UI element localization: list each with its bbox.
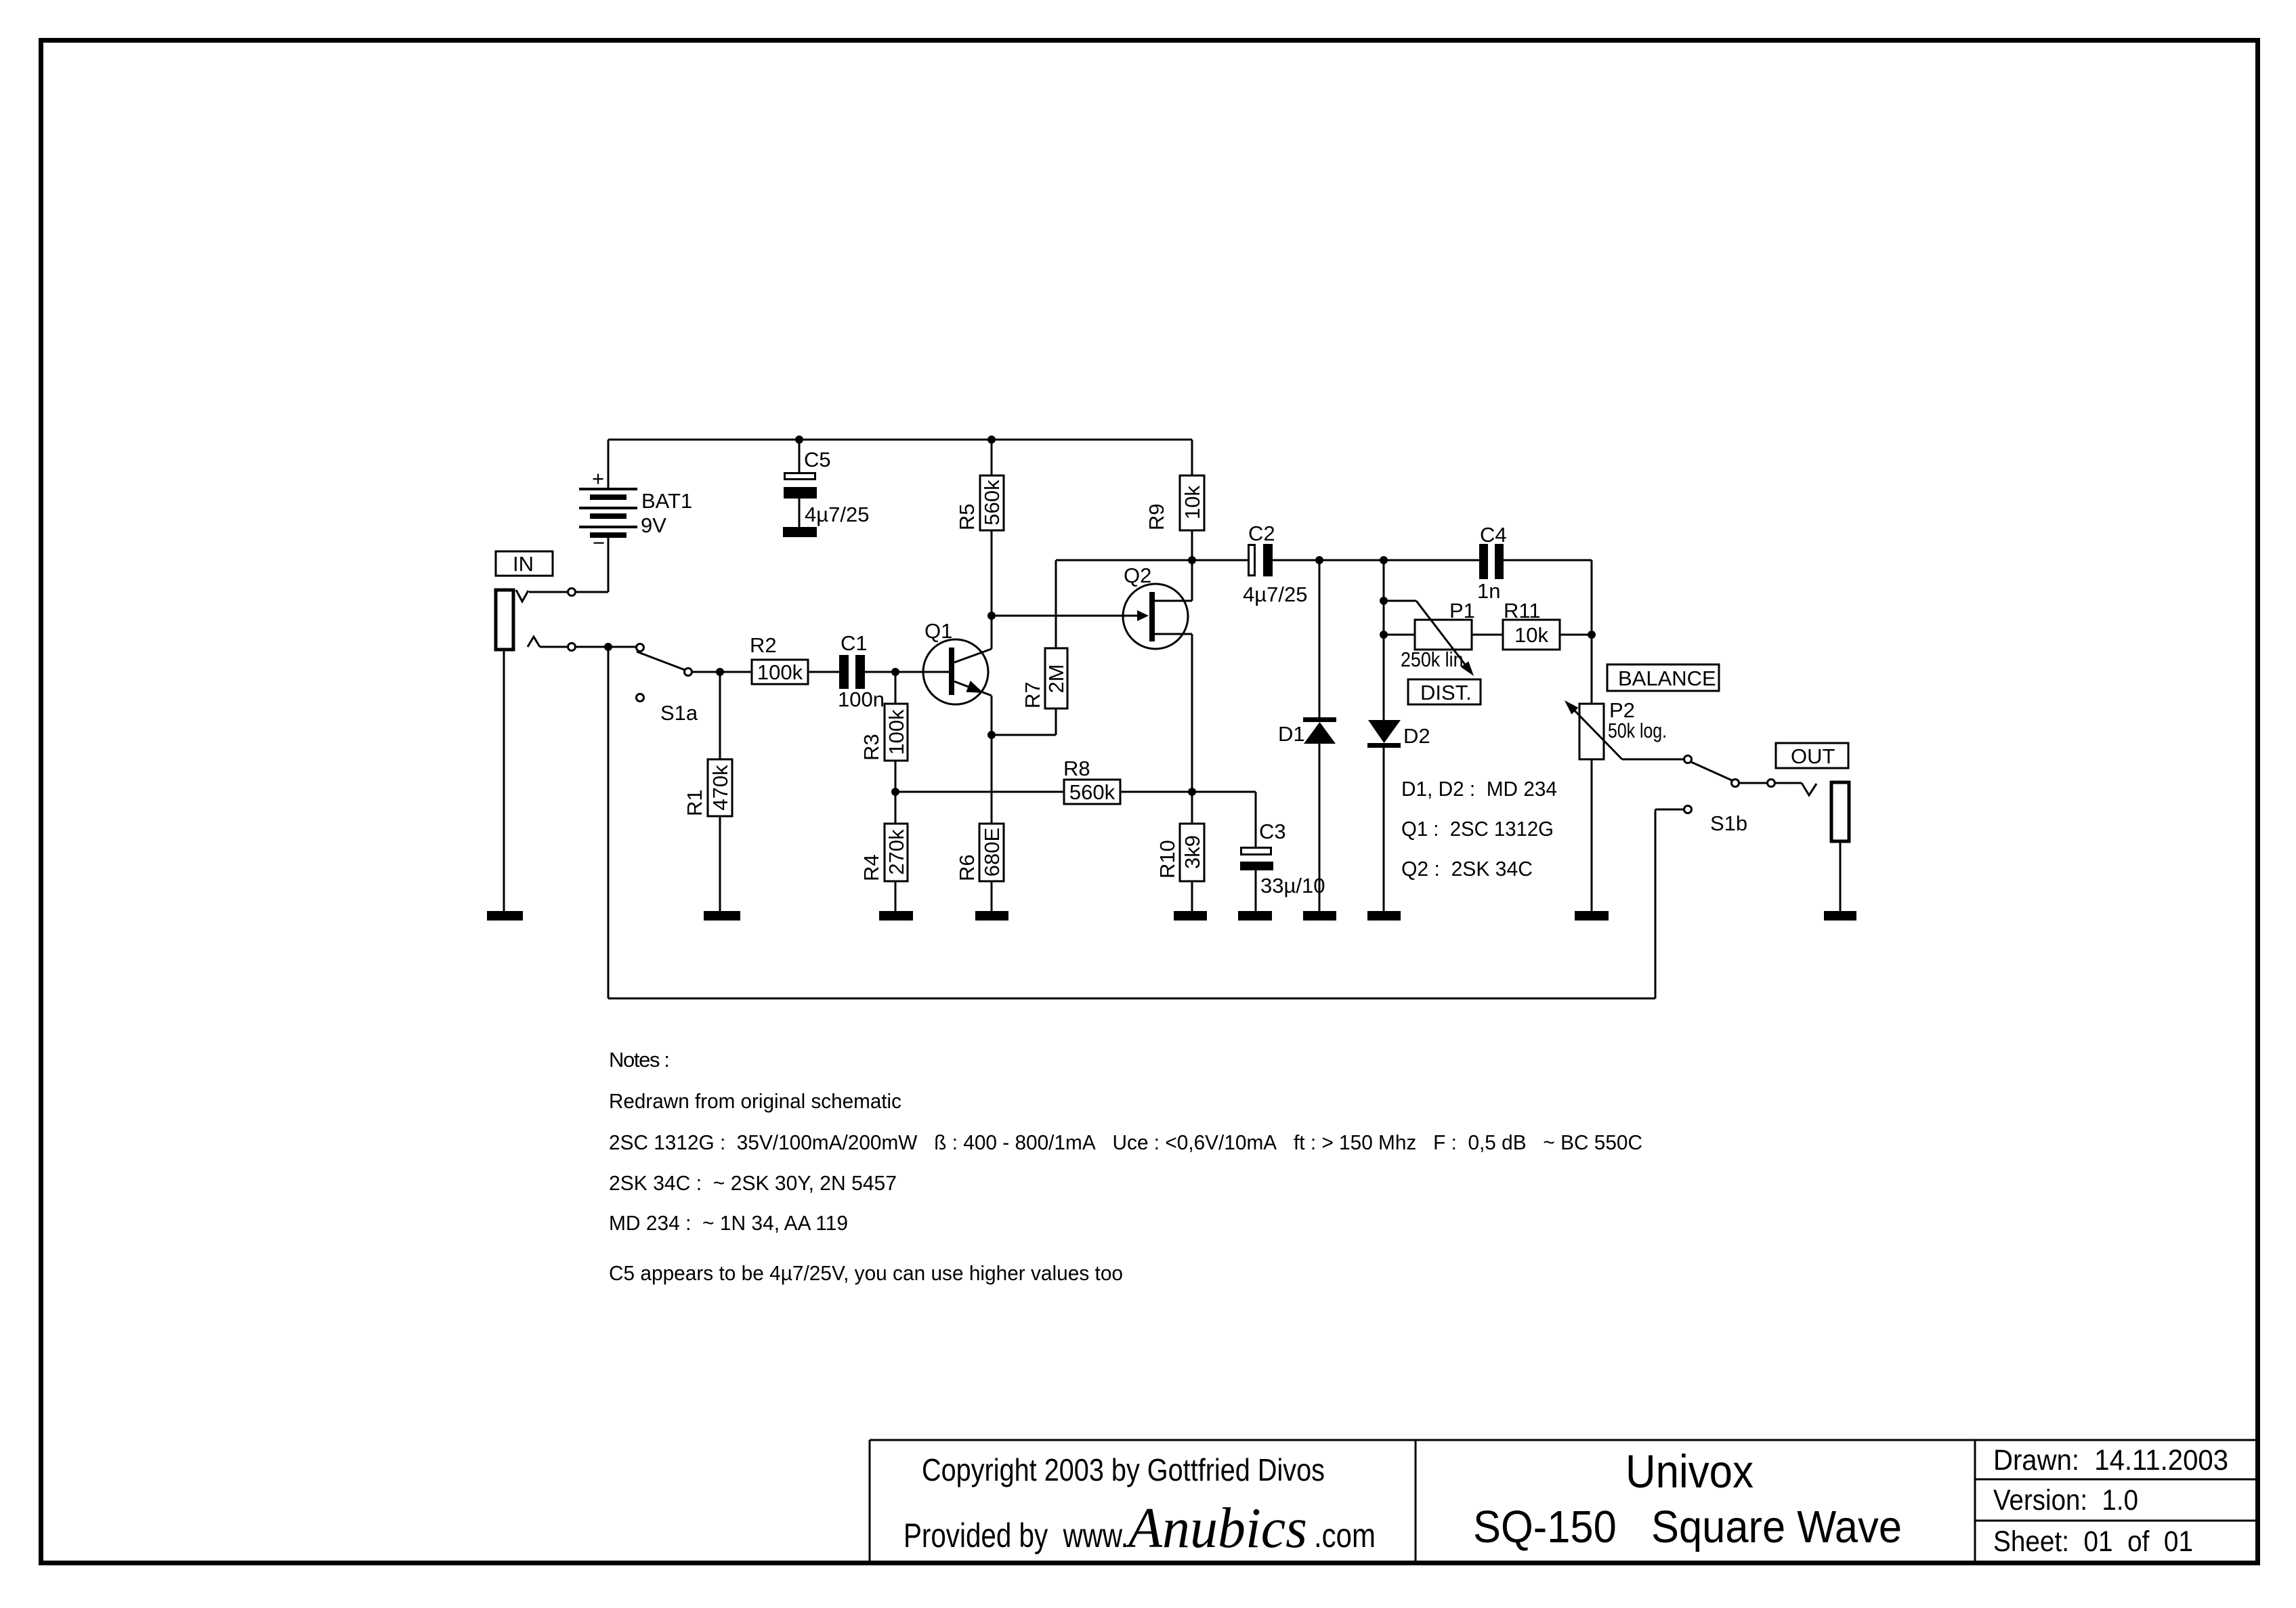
svg-text:2SK 34C : ~ 2SK 30Y, 2N 5457: 2SK 34C : ~ 2SK 30Y, 2N 5457 (609, 1171, 897, 1195)
resistor R9 (1145, 440, 1204, 560)
svg-text:Drawn: 14.11.2003: Drawn: 14.11.2003 (1993, 1444, 2228, 1477)
node Q2 source (1188, 788, 1196, 796)
svg-text:2SC 1312G : 35V/100mA/200mW: 2SC 1312G : 35V/100mA/200mW ß : 400 - 80… (609, 1130, 1642, 1154)
svg-text:1n: 1n (1477, 579, 1500, 603)
node Q2 gate tap (987, 612, 996, 620)
label IN (496, 551, 553, 576)
svg-text:C3: C3 (1259, 820, 1286, 843)
svg-text:R7: R7 (1021, 681, 1044, 708)
wire tip to battery (529, 589, 608, 596)
label BALANCE (1607, 664, 1719, 691)
output jack J2 (1802, 782, 1849, 911)
node R1 top (716, 668, 724, 676)
svg-text:R6: R6 (955, 854, 979, 881)
resistor R1 (683, 672, 732, 911)
svg-text:10k: 10k (1181, 486, 1204, 520)
transistor Q2 (1123, 560, 1192, 792)
battery BAT1 (579, 440, 692, 592)
diode D2 (1367, 560, 1430, 911)
svg-text:S1b: S1b (1710, 811, 1747, 835)
svg-text:4µ7/25: 4µ7/25 (1243, 583, 1307, 606)
svg-text:33µ/10: 33µ/10 (1260, 874, 1325, 897)
node R9 bottom (1188, 556, 1196, 564)
svg-text:680E: 680E (980, 828, 1004, 876)
ground R4 (879, 911, 913, 921)
ground R1 (704, 911, 740, 921)
svg-text:OUT: OUT (1791, 744, 1835, 768)
ground R10 (1174, 911, 1207, 921)
svg-text:470k: 470k (708, 765, 732, 811)
svg-text:D1: D1 (1278, 722, 1305, 746)
resistor R4 (859, 792, 908, 911)
wire base (895, 671, 950, 673)
resistor R5 (955, 440, 1004, 649)
svg-text:D2: D2 (1403, 724, 1430, 748)
node R5 top (987, 436, 996, 444)
svg-text:C1: C1 (841, 631, 868, 655)
svg-text:C2: C2 (1248, 522, 1275, 545)
svg-text:250k lin.: 250k lin. (1401, 648, 1468, 671)
node R3 bottom (891, 788, 899, 796)
svg-text:Q1: Q1 (924, 619, 952, 643)
svg-text:560k: 560k (1069, 780, 1115, 804)
label DIST (1408, 679, 1481, 704)
node R11 right (1588, 631, 1596, 639)
ground R6 (975, 911, 1008, 921)
resistor R8 (895, 757, 1192, 804)
svg-text:BALANCE: BALANCE (1618, 667, 1716, 690)
ground input jack (487, 650, 523, 921)
svg-text:C4: C4 (1480, 523, 1507, 547)
wire top rail (608, 439, 1192, 441)
capacitor C2 (1192, 522, 1479, 606)
ground P2 (1575, 911, 1609, 921)
svg-text:C5 appears to be 4µ7/25V, you: C5 appears to be 4µ7/25V, you can use hi… (609, 1261, 1123, 1285)
svg-text:R8: R8 (1063, 757, 1090, 780)
title text copyright (903, 1452, 1376, 1560)
svg-text:270k: 270k (885, 829, 908, 875)
svg-text:50k log.: 50k log. (1608, 719, 1667, 742)
ground output jack (1824, 911, 1856, 921)
ground D2 (1367, 911, 1401, 921)
svg-text:IN: IN (513, 552, 534, 576)
wire ring (540, 643, 636, 651)
ground C3 (1238, 911, 1272, 921)
svg-text:Version: 1.0: Version: 1.0 (1993, 1484, 2138, 1517)
svg-text:D1, D2 : MD 234: D1, D2 : MD 234 (1401, 777, 1557, 801)
svg-text:R3: R3 (859, 734, 883, 761)
capacitor C5 (784, 440, 869, 527)
component notes (1401, 777, 1557, 881)
svg-text:C5: C5 (804, 448, 831, 471)
svg-text:9V: 9V (641, 513, 666, 537)
svg-text:MD 234 : ~ 1N 34, AA 119: MD 234 : ~ 1N 34, AA 119 (609, 1211, 848, 1235)
wire ring junction down (608, 647, 610, 998)
node emitter R7 (987, 731, 996, 739)
svg-text:R10: R10 (1155, 840, 1179, 879)
svg-text:Redrawn from original schemati: Redrawn from original schematic (609, 1089, 901, 1113)
svg-text:560k: 560k (980, 480, 1004, 526)
node P1 left (1380, 631, 1388, 639)
capacitor C3 (1192, 792, 1325, 911)
switch S1b (1655, 756, 1802, 999)
title text revision (1993, 1444, 2228, 1558)
wire bottom rail (608, 998, 1655, 1000)
svg-text:Notes :: Notes : (609, 1048, 670, 1072)
svg-text:Anubics: Anubics (1125, 1496, 1307, 1560)
input jack J1 (496, 590, 540, 650)
resistor R11 (1472, 599, 1592, 650)
notes text (609, 1048, 1642, 1285)
svg-text:3k9: 3k9 (1181, 835, 1204, 869)
svg-text:DIST.: DIST. (1420, 681, 1472, 704)
svg-text:+: + (592, 467, 604, 490)
svg-text:R2: R2 (750, 633, 777, 657)
title block (870, 1440, 2258, 1563)
switch S1a (637, 644, 698, 725)
diode D1 (1278, 560, 1336, 911)
svg-text:100k: 100k (757, 660, 803, 684)
svg-text:Q2: Q2 (1124, 564, 1151, 587)
svg-text:Provided by www.: Provided by www. (903, 1517, 1128, 1554)
svg-text:10k: 10k (1514, 623, 1548, 647)
svg-text:Sheet: 01 of 01: Sheet: 01 of 01 (1993, 1525, 2193, 1558)
ground D1 (1303, 911, 1336, 921)
node P1 wiper (1380, 597, 1388, 605)
node D1 top (1315, 556, 1323, 564)
resistor R3 (859, 672, 908, 792)
resistor R6 (955, 696, 1004, 911)
wire gate (992, 615, 1137, 617)
node D2 top (1380, 556, 1388, 564)
capacitor C4 (1477, 523, 1592, 704)
potentiometer P2 (1565, 698, 1684, 911)
node C5 top (795, 436, 803, 444)
svg-text:.com: .com (1314, 1517, 1376, 1554)
ground C5 (783, 527, 817, 537)
svg-text:Q2 : 2SK 34C: Q2 : 2SK 34C (1401, 857, 1533, 881)
capacitor C1 (838, 631, 895, 711)
wire S1a pole to R2 (692, 671, 752, 673)
svg-text:R1: R1 (683, 789, 706, 816)
resistor R7 (992, 560, 1192, 735)
title text product (1473, 1445, 1902, 1552)
svg-text:S1a: S1a (660, 701, 698, 725)
svg-text:100n: 100n (838, 687, 885, 711)
svg-text:Copyright 2003 by Gottfried Di: Copyright 2003 by Gottfried Divos (922, 1452, 1325, 1487)
svg-text:BAT1: BAT1 (641, 489, 692, 513)
node Q1 base (891, 668, 899, 676)
node ring junction (604, 643, 612, 651)
resistor R2 (750, 633, 839, 684)
svg-text:4µ7/25: 4µ7/25 (805, 503, 869, 526)
svg-text:P1: P1 (1449, 599, 1475, 622)
transistor Q1 (923, 619, 992, 704)
svg-text:Univox: Univox (1625, 1445, 1753, 1498)
svg-text:100k: 100k (885, 709, 908, 755)
svg-text:R5: R5 (955, 503, 979, 530)
svg-text:SQ-150 Square Wave: SQ-150 Square Wave (1473, 1502, 1902, 1552)
svg-text:−: − (593, 531, 605, 555)
svg-text:R11: R11 (1504, 599, 1541, 622)
svg-text:2M: 2M (1044, 664, 1068, 693)
svg-text:R9: R9 (1145, 503, 1168, 530)
svg-text:Q1 : 2SC 1312G: Q1 : 2SC 1312G (1401, 817, 1554, 841)
svg-text:R4: R4 (859, 854, 883, 881)
potentiometer P1 (1384, 599, 1475, 676)
label OUT (1776, 743, 1848, 768)
resistor R10 (1155, 792, 1204, 911)
